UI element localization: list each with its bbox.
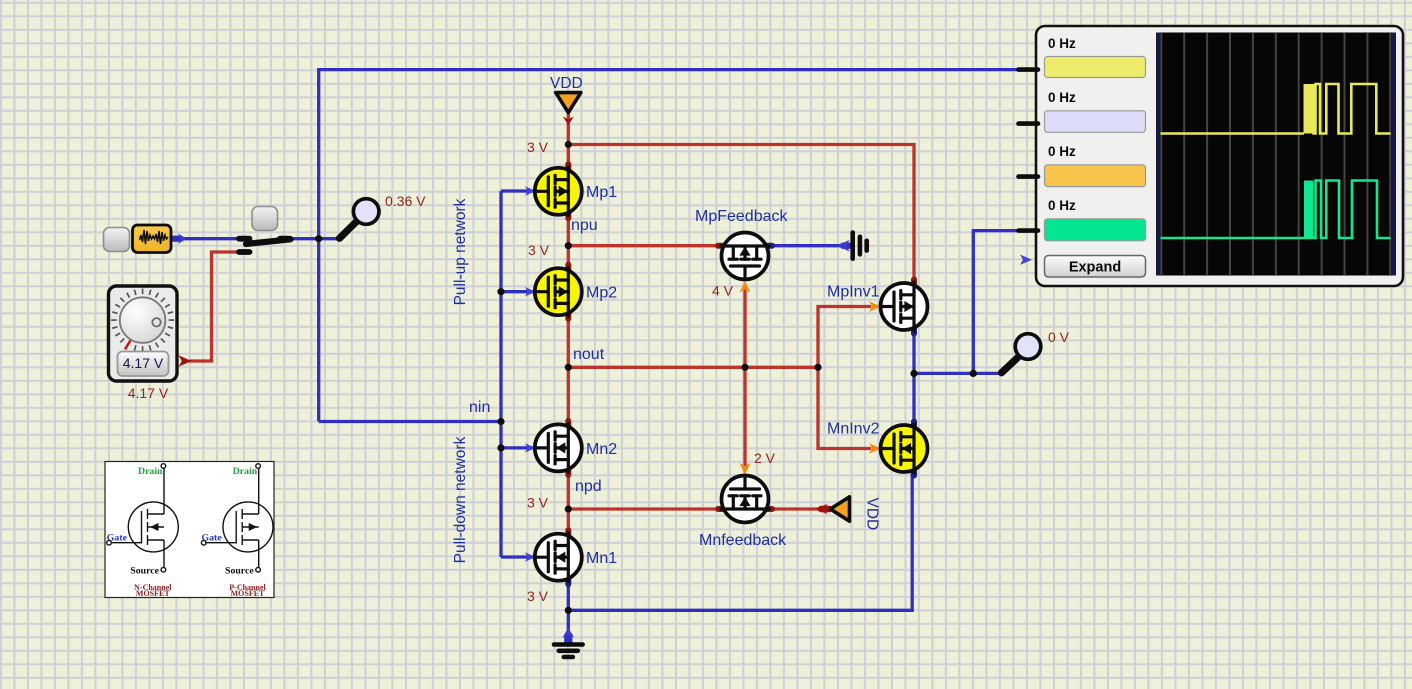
terminal nub Mn2 drain <box>565 421 571 428</box>
wire VDD to Mp1 source <box>567 111 570 169</box>
terminal nub Mn2 source <box>565 468 571 475</box>
noise source V1 <box>133 225 172 253</box>
svg-text:nin: nin <box>469 399 490 416</box>
svg-text:npd: npd <box>575 478 602 495</box>
svg-text:nout: nout <box>573 346 605 363</box>
junction VDD rail <box>565 141 572 148</box>
svg-text:Mn2: Mn2 <box>586 441 617 458</box>
MOSFET reference image panel <box>105 462 274 598</box>
svg-text:0 Hz: 0 Hz <box>1048 90 1076 105</box>
wire Mn1 source to ground bus <box>568 471 912 610</box>
arrow ground stub <box>563 628 574 644</box>
voltage probe 0.36V <box>340 199 380 239</box>
voltage probe 0V <box>1002 334 1041 373</box>
svg-text:Source: Source <box>130 566 159 577</box>
push button grey 2 <box>252 207 278 231</box>
svg-text:Gate: Gate <box>107 533 128 544</box>
terminal nub Mn1 source <box>565 577 571 584</box>
terminal nub Mp2 drain <box>565 265 571 272</box>
arrow into left VDD terminal <box>816 504 830 514</box>
junction npd <box>565 505 572 512</box>
junction Mn2 gate <box>497 444 504 451</box>
svg-text:Gate: Gate <box>202 533 223 544</box>
wire npu node Mp1 to Mp2 <box>567 214 570 269</box>
svg-text:Drain: Drain <box>138 466 163 477</box>
wire npd node Mn2 to Mn1 <box>567 470 570 535</box>
scope trace ch4 green <box>1304 181 1314 239</box>
svg-text:Pull-up network: Pull-up network <box>452 198 469 305</box>
wire feedback gate vertical <box>743 288 746 468</box>
junction nout <box>565 364 572 371</box>
svg-text:MOSFET: MOSFET <box>136 589 170 598</box>
junction Mp2 gate <box>497 288 504 295</box>
scope ch2 swatch <box>1045 111 1146 133</box>
wire inverter output to probe <box>914 372 1001 375</box>
wire nout node Mp2 to Mn2 <box>567 314 570 425</box>
terminal nub MpFeedback source <box>718 243 725 249</box>
transistor Mp1 <box>535 167 582 216</box>
svg-text:0 Hz: 0 Hz <box>1048 36 1076 51</box>
terminal nub MpFeedback drain <box>765 243 772 249</box>
wire gate bus vertical <box>499 191 502 557</box>
scope expand button <box>1045 256 1146 278</box>
junction input node at switch <box>315 235 322 242</box>
arrow scope aux input <box>1020 255 1032 265</box>
wire potentiometer to switch lower throw <box>189 252 237 361</box>
svg-text:0 Hz: 0 Hz <box>1048 144 1076 159</box>
bus terminator ground right of MpFeedback <box>853 233 867 259</box>
push button grey 1 <box>104 228 130 252</box>
svg-text:MnInv2: MnInv2 <box>827 421 880 438</box>
junction inverter output <box>910 370 917 377</box>
VDD power symbol top <box>556 93 581 113</box>
svg-text:MpFeedback: MpFeedback <box>695 208 788 225</box>
svg-text:0.36 V: 0.36 V <box>385 193 426 209</box>
junction npu <box>565 242 572 249</box>
transistor MnInv2 <box>881 424 928 473</box>
arrow Mn1 gate <box>525 552 536 561</box>
wire Mnfeedback drain to VDD terminal <box>769 507 821 510</box>
terminal nub MnInv2 drain <box>911 422 917 429</box>
arrow Mnfeedback gate <box>740 463 751 475</box>
transistor MpFeedback <box>721 233 770 280</box>
arrow into bus terminator <box>837 240 850 252</box>
wire Mn2 gate stub <box>501 446 534 449</box>
terminal nub Mp1 drain <box>565 164 571 171</box>
svg-text:3 V: 3 V <box>527 139 549 155</box>
svg-text:4.17 V: 4.17 V <box>128 385 169 401</box>
arrow MnInv2 gate <box>869 443 881 453</box>
svg-text:VDD: VDD <box>550 75 583 92</box>
wire inverter gate vertical <box>818 307 871 449</box>
svg-text:2 V: 2 V <box>754 450 776 466</box>
arrow noise source output <box>171 234 187 244</box>
arrow Mp1 gate <box>525 186 536 195</box>
svg-text:Source: Source <box>225 566 254 577</box>
wire VDD rail to MpInv1 source <box>568 145 914 285</box>
terminal nub MpInv1 source <box>911 280 917 287</box>
terminal nub Mnfeedback source <box>718 506 725 512</box>
junction ground bus <box>565 607 572 614</box>
svg-text:0 V: 0 V <box>1048 329 1070 345</box>
svg-text:0 Hz: 0 Hz <box>1048 198 1076 213</box>
arrow MpFeedback gate <box>740 281 751 293</box>
wire switch throw to probe node <box>292 237 339 240</box>
scope trace ch1 yellow <box>1304 84 1314 134</box>
terminal nub Mp1 source <box>565 211 571 218</box>
svg-text:MpInv1: MpInv1 <box>827 284 880 301</box>
svg-text:4.17 V: 4.17 V <box>123 355 164 371</box>
switch SW1 <box>239 239 291 252</box>
svg-text:3 V: 3 V <box>527 495 549 511</box>
svg-text:Mp1: Mp1 <box>586 184 617 201</box>
svg-text:Pull-down network: Pull-down network <box>452 436 469 563</box>
potentiometer 4.17V <box>109 286 192 381</box>
svg-text:npu: npu <box>571 217 598 234</box>
wire inverter output up to scope ch4 <box>973 231 1019 374</box>
arrow MpInv1 gate <box>869 301 881 311</box>
transistor Mp2 <box>535 267 582 316</box>
junction scope ch4 tap <box>970 370 977 377</box>
arrow below VDD symbol <box>563 117 574 126</box>
wire top blue bus from input node to scope ch1 <box>319 70 1019 422</box>
arrow Mp2 gate <box>525 287 536 296</box>
junction nin <box>497 418 504 425</box>
terminal nub Mnfeedback drain <box>765 506 772 512</box>
wire nin horizontal to gate bus <box>319 420 501 423</box>
svg-text:4 V: 4 V <box>712 283 734 299</box>
wire MpInv1 drain to MnInv2 drain <box>912 329 915 426</box>
ground symbol bottom <box>554 645 583 658</box>
junction inverter gates at nout <box>814 364 821 371</box>
scope input pin ch1 <box>1019 67 1039 72</box>
svg-text:MOSFET: MOSFET <box>231 589 265 598</box>
svg-text:3 V: 3 V <box>527 588 549 604</box>
scope ch4 swatch <box>1045 219 1146 241</box>
terminal nub Mn1 drain <box>565 530 571 537</box>
potentiometer display 4.17 V <box>118 352 169 377</box>
wire npd branch to Mnfeedback source <box>568 507 722 510</box>
scope input pin ch4 <box>1019 228 1039 233</box>
potentiometer red pointer <box>125 340 131 350</box>
svg-text:Mnfeedback: Mnfeedback <box>699 532 787 549</box>
potentiometer output arrow <box>179 355 192 366</box>
potentiometer knob <box>120 297 166 343</box>
svg-text:Drain: Drain <box>233 466 258 477</box>
wire nout branch to inverter gates <box>568 366 818 369</box>
transistor Mnfeedback <box>721 476 770 523</box>
scope input pin ch3 <box>1019 174 1039 179</box>
wire noise source output to switch pole <box>172 237 237 240</box>
svg-text:Mp2: Mp2 <box>586 285 617 302</box>
svg-text:Expand: Expand <box>1069 259 1121 275</box>
scope ch1 swatch <box>1045 57 1146 78</box>
wire ground stub <box>567 610 570 640</box>
wire Mn1 gate stub <box>501 555 534 558</box>
terminal nub MpInv1 drain <box>911 327 917 334</box>
wire Mp2 gate stub <box>501 290 534 293</box>
svg-text:3 V: 3 V <box>528 242 550 258</box>
transistor MpInv1 <box>881 282 928 331</box>
scope screen <box>1156 33 1396 276</box>
VDD power symbol left of Mnfeedback <box>830 497 849 521</box>
terminal nub MnInv2 source <box>911 469 917 476</box>
svg-text:VDD: VDD <box>864 498 881 531</box>
terminal nub Mp2 source <box>565 312 571 319</box>
wire MpFeedback drain to bus terminator <box>769 244 852 247</box>
scope ch3 swatch <box>1045 165 1146 187</box>
svg-text:Mn1: Mn1 <box>586 550 617 567</box>
wire Mp1 gate stub <box>501 189 534 192</box>
scope input pin ch2 <box>1019 121 1039 126</box>
junction feedback gates at nout <box>741 364 748 371</box>
arrow Mn2 gate <box>525 443 536 452</box>
transistor Mn2 <box>535 423 582 472</box>
transistor Mn1 <box>535 533 582 582</box>
wire npu branch to MpFeedback source <box>568 244 722 247</box>
oscilloscope panel <box>1019 26 1404 286</box>
